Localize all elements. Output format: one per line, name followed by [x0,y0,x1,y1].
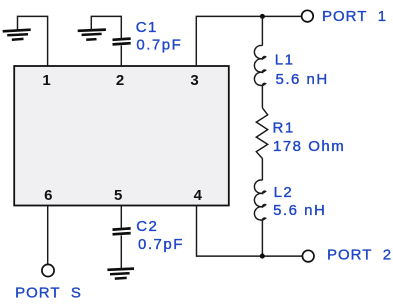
C1 label [136,19,158,36]
svg-text:4: 4 [194,187,203,204]
L1 label [275,51,295,68]
capacitor C2 [113,228,131,234]
ground G2 [78,30,106,40]
svg-text:6: 6 [44,187,52,204]
svg-text:PORT 1: PORT 1 [322,8,387,25]
pin 3 number [190,72,198,89]
svg-text:PORT 2: PORT 2 [327,246,392,263]
node A junction dot [260,14,265,19]
inductor L1 [254,45,265,85]
capacitor C1 [113,39,131,45]
svg-text:5: 5 [114,187,122,204]
C2 label [136,218,158,235]
R1 label [273,119,295,136]
wire C2 to ground G3 [120,235,122,268]
pin 2 number [116,72,124,89]
port PORT 1 terminal [302,10,314,22]
ground G1 [3,30,31,40]
port PORT 2 terminal [302,250,314,262]
svg-text:C1: C1 [136,19,158,36]
svg-text:R1: R1 [273,119,295,136]
wire L2 to node B [261,220,263,256]
ground G3 [107,269,134,279]
svg-text:L1: L1 [275,51,295,68]
svg-text:L2: L2 [274,184,294,201]
C2 value 0.7pF [138,236,184,253]
port PORT S terminal [42,264,54,276]
svg-text:1: 1 [42,72,50,89]
svg-text:0.7pF: 0.7pF [138,236,184,253]
wire node A to L1 [261,16,263,45]
svg-text:5.6 nH: 5.6 nH [276,71,329,88]
wire pin1 to ground G1 [18,16,48,66]
wire pin6 to port S [47,206,49,265]
svg-text:PORT S: PORT S [15,285,82,302]
pin 4 number [194,187,203,204]
pin 1 number [42,72,50,89]
wire C1 to pin2 [120,46,122,67]
wire pin2 top to C1 and ground G2 [91,16,121,39]
wire R1 to L2 [261,159,263,181]
svg-text:5.6 nH: 5.6 nH [273,202,326,219]
svg-text:2: 2 [116,72,124,89]
PORT S label [15,285,82,302]
node B junction dot [260,254,265,259]
svg-text:C2: C2 [136,218,158,235]
wire L1 to R1 [261,86,263,108]
wire pin5 to C2 [120,206,122,229]
L2 label [274,184,294,201]
svg-text:3: 3 [190,72,198,89]
pin 6 number [44,187,52,204]
PORT 2 label [327,246,392,263]
svg-text:178 Ohm: 178 Ohm [273,138,345,155]
wire pin4 to node B / port2 [197,206,303,257]
PORT 1 label [322,8,387,25]
L2 value 5.6 nH [273,202,326,219]
svg-text:0.7pF: 0.7pF [136,37,182,54]
R1 value 178 Ohm [273,138,345,155]
wire pin3 to node A / port1 [196,16,301,66]
inductor L2 [254,180,265,220]
C1 value 0.7pF [136,37,182,54]
L1 value 5.6 nH [276,71,329,88]
pin 5 number [114,187,122,204]
resistor R1 [256,108,267,159]
IC body (6-pin box) [14,66,229,206]
